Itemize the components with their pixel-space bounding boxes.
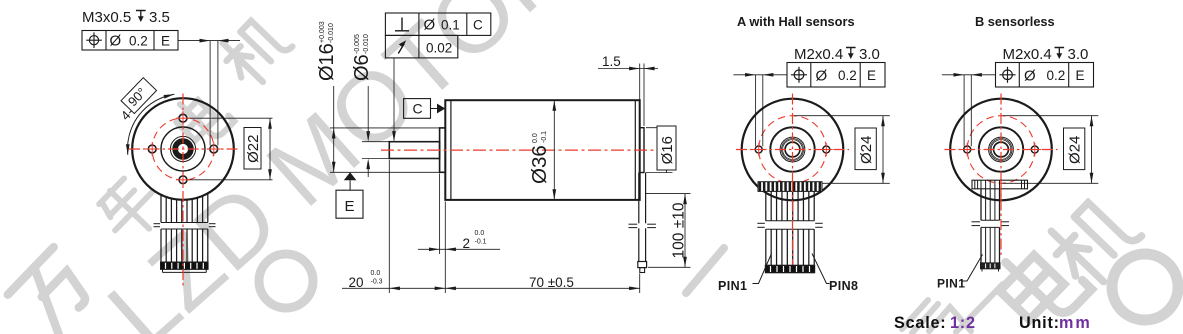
svg-text:0.2: 0.2: [1047, 68, 1066, 83]
svg-text:-0.010: -0.010: [363, 34, 370, 54]
svg-text:0.1: 0.1: [441, 17, 460, 32]
svg-text:M2x0.4: M2x0.4: [1003, 46, 1052, 63]
svg-text:+0.003: +0.003: [319, 21, 326, 43]
svg-text:Ø16: Ø16: [659, 136, 676, 164]
svg-text:C: C: [473, 17, 483, 32]
svg-text:Unit:: Unit:: [1019, 314, 1060, 332]
svg-text:1:2: 1:2: [950, 314, 976, 332]
svg-text:C: C: [413, 100, 423, 116]
svg-text:-0.010: -0.010: [328, 23, 335, 43]
svg-text:E: E: [1076, 68, 1085, 83]
svg-text:Scale:: Scale:: [894, 314, 947, 332]
svg-text:70 ±0.5: 70 ±0.5: [529, 275, 574, 290]
svg-text:E: E: [161, 33, 170, 48]
svg-text:PIN1: PIN1: [937, 277, 965, 291]
svg-text:E: E: [345, 198, 355, 215]
svg-text:3.0: 3.0: [1068, 46, 1089, 63]
svg-text:Ø22: Ø22: [245, 135, 262, 163]
svg-text:PIN8: PIN8: [829, 279, 858, 293]
svg-text:3.5: 3.5: [149, 9, 170, 26]
svg-text:-0.005: -0.005: [354, 34, 361, 54]
svg-text:Ø16: Ø16: [316, 43, 338, 81]
svg-text:-0.1: -0.1: [541, 131, 548, 143]
svg-text:PIN1: PIN1: [718, 279, 747, 293]
svg-text:0.0: 0.0: [475, 230, 485, 237]
svg-text:mm: mm: [1059, 314, 1092, 332]
svg-text:Ø: Ø: [424, 17, 436, 34]
svg-text:-0.3: -0.3: [371, 279, 383, 286]
svg-text:Ø6: Ø6: [351, 54, 373, 81]
svg-text:0.0: 0.0: [371, 270, 381, 277]
svg-text:Ø24: Ø24: [858, 136, 875, 164]
svg-text:Ø: Ø: [1024, 67, 1036, 84]
svg-text:0.2: 0.2: [129, 33, 148, 48]
svg-text:Ø36: Ø36: [528, 145, 551, 184]
svg-text:100 ±10: 100 ±10: [671, 202, 688, 258]
svg-text:M3x0.5: M3x0.5: [82, 9, 131, 26]
svg-text:3.0: 3.0: [859, 46, 880, 63]
svg-text:A with Hall sensors: A with Hall sensors: [737, 14, 855, 29]
svg-text:20: 20: [349, 275, 364, 290]
svg-text:Ø: Ø: [110, 33, 122, 50]
svg-text:-0.1: -0.1: [475, 239, 487, 246]
svg-text:0.0: 0.0: [532, 133, 539, 143]
svg-text:0.2: 0.2: [838, 68, 857, 83]
svg-text:M2x0.4: M2x0.4: [794, 46, 843, 63]
svg-text:2: 2: [463, 236, 471, 251]
svg-text:B sensorless: B sensorless: [975, 14, 1055, 29]
svg-text:1.5: 1.5: [602, 54, 621, 69]
svg-text:0.02: 0.02: [426, 40, 452, 55]
svg-text:Ø: Ø: [816, 67, 828, 84]
svg-text:E: E: [867, 68, 876, 83]
svg-text:Ø24: Ø24: [1067, 136, 1084, 164]
